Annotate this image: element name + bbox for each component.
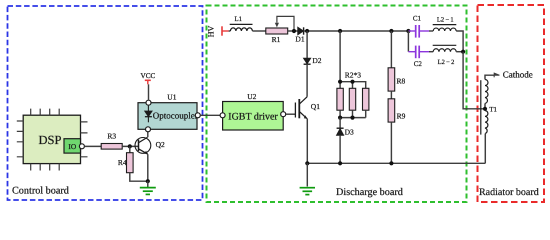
DSP top pins <box>31 109 60 116</box>
node optocoupler output pin <box>195 113 200 118</box>
IO port box <box>64 139 81 153</box>
node optocoupler bottom pin <box>146 127 151 132</box>
svg-text:U2: U2 <box>247 92 256 101</box>
VCC power symbol <box>145 80 151 84</box>
svg-text:D1: D1 <box>295 35 304 44</box>
node R8 branch junction <box>389 29 393 33</box>
node U2 input pin <box>220 113 225 118</box>
wire IO to R3 <box>84 145 101 147</box>
diode D3 <box>337 128 344 135</box>
HV power symbol <box>222 26 229 35</box>
wire T1 top to cathode arrow <box>485 75 494 79</box>
wire R2 rail to D3 <box>339 118 341 129</box>
ground control board <box>140 181 156 194</box>
wire T1 bottom to bottom rail <box>484 134 486 164</box>
wire C junction down to C2 <box>407 31 409 52</box>
T1 upper winding <box>485 80 488 104</box>
R1 bypass arrow <box>275 16 294 31</box>
svg-text:R8: R8 <box>397 76 406 85</box>
wire U2 to Q1 gate <box>286 113 296 115</box>
node R2 branch junction <box>338 29 342 33</box>
diode D1 <box>298 27 304 34</box>
svg-text:T1: T1 <box>489 106 497 113</box>
node base junction <box>128 144 132 148</box>
DSP right pins <box>81 122 88 157</box>
R2 bottom rail <box>340 110 366 117</box>
inductor L1 <box>230 24 253 31</box>
node R2 bottom mid <box>350 116 354 120</box>
svg-text:Q2: Q2 <box>156 140 165 149</box>
svg-text:Discharge board: Discharge board <box>336 187 403 198</box>
DSP bottom pins <box>31 164 60 171</box>
resistor R2 b <box>349 88 355 110</box>
node R2 bottom left <box>338 116 342 120</box>
svg-text:L1: L1 <box>235 16 243 23</box>
svg-text:VCC: VCC <box>141 72 156 80</box>
resistor R2 c <box>363 88 369 110</box>
node R2 rail left <box>338 80 342 84</box>
resistor R4 <box>127 153 134 173</box>
wire L2-1 to right junction <box>456 31 463 52</box>
wire Q1 emitter to bottom rail <box>306 119 308 164</box>
optocoupler U1 box <box>138 103 197 130</box>
svg-text:L2 − 2: L2 − 2 <box>438 59 455 66</box>
node on IO output <box>79 144 84 149</box>
node T1 tap <box>483 107 487 111</box>
inductor L2-2 <box>433 45 457 51</box>
wire L2 junction to T1 tap <box>463 52 485 109</box>
resistor R2 a <box>337 88 343 110</box>
node U2 output pin <box>281 112 286 117</box>
wire R8 to R9 <box>390 91 392 99</box>
svg-text:Q1: Q1 <box>311 102 320 111</box>
wire D1 junction to D2 <box>306 31 308 58</box>
svg-text:R1: R1 <box>272 35 281 44</box>
wire Q2 emitter to ground node <box>147 154 149 181</box>
resistor R1 <box>266 28 288 34</box>
node emitter bottom junction <box>305 161 309 165</box>
node emitter ground junction <box>146 179 150 183</box>
node R1 right junction <box>292 29 296 33</box>
transistor Q2 <box>135 137 151 154</box>
svg-text:D3: D3 <box>345 128 354 137</box>
svg-text:IGBT driver: IGBT driver <box>228 111 278 122</box>
svg-text:Optocoupler: Optocoupler <box>153 111 198 121</box>
node C1 C2 junction <box>406 29 410 33</box>
inductor L2-1 <box>433 25 457 31</box>
wire T1 winding gap <box>484 103 486 108</box>
discharge board border <box>207 6 467 203</box>
wire R2 branch down <box>339 31 341 82</box>
wire R3 to Q2 base <box>122 145 138 147</box>
svg-text:R3: R3 <box>107 131 116 140</box>
wire C2 to L2-2 <box>429 51 433 53</box>
diode D2 <box>304 58 311 64</box>
node R9 bottom junction <box>389 161 393 165</box>
svg-text:Control board: Control board <box>12 186 69 197</box>
resistor R9 <box>388 99 395 122</box>
wire Q2 collector to optocoupler <box>147 132 149 137</box>
T1 lower winding <box>485 111 488 134</box>
wire VCC to optocoupler <box>148 84 150 100</box>
svg-text:C1: C1 <box>413 15 422 23</box>
wire junction to R4 <box>129 146 131 152</box>
wire C1 to L2-1 <box>429 30 433 32</box>
wire L2-2 to right junction <box>456 51 463 53</box>
node R2 rail mid <box>350 80 354 84</box>
svg-text:U1: U1 <box>167 93 176 102</box>
R2 top rail <box>340 82 366 89</box>
DSP left pins <box>17 121 23 157</box>
optocoupler LED diode <box>145 106 152 123</box>
transformer T1 core <box>480 80 482 134</box>
svg-text:C2: C2 <box>414 60 423 68</box>
capacitor C2 <box>408 46 429 59</box>
node D1 cathode junction <box>305 29 309 33</box>
ground discharge board <box>300 163 315 194</box>
svg-text:Radiator board: Radiator board <box>479 187 539 198</box>
wire L1 to R1 <box>252 30 265 32</box>
svg-text:R2*3: R2*3 <box>345 71 362 80</box>
radiator board border <box>478 5 545 202</box>
svg-text:HV: HV <box>206 26 215 38</box>
svg-text:DSP: DSP <box>39 133 62 147</box>
node L2 junction <box>461 50 465 54</box>
svg-text:D2: D2 <box>312 56 321 65</box>
svg-text:IO: IO <box>68 142 76 151</box>
wire HV to L1 <box>229 30 231 32</box>
wire D2 to Q1 collector <box>306 64 308 97</box>
wire optocoupler to U2 <box>200 114 220 116</box>
wire R9 to bottom rail <box>390 122 392 163</box>
control board border <box>8 6 203 200</box>
IGBT driver U2 box <box>223 102 284 131</box>
wire D1 to C1 junction <box>304 30 409 32</box>
svg-text:L2 − 1: L2 − 1 <box>437 16 454 23</box>
wire R1 to D1 <box>288 30 298 32</box>
resistor R3 <box>101 144 122 150</box>
wire R8 branch down <box>390 31 392 68</box>
svg-text:R9: R9 <box>397 111 406 120</box>
bottom rail wire <box>307 162 485 164</box>
node optocoupler top pin <box>146 100 151 105</box>
cathode arrow <box>494 73 500 77</box>
svg-text:R4: R4 <box>118 158 127 167</box>
resistor R8 <box>388 68 395 91</box>
DSP chip body <box>23 115 80 163</box>
svg-text:Cathode: Cathode <box>503 69 533 79</box>
wire D3 to bottom rail <box>339 135 341 163</box>
wire R4 to emitter node <box>130 173 148 182</box>
capacitor C1 <box>408 25 429 38</box>
node D3 bottom junction <box>338 161 342 165</box>
IGBT Q1 <box>295 97 307 119</box>
